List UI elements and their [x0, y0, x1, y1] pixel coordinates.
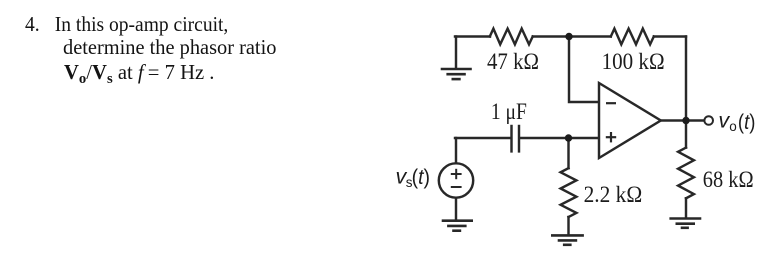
source minus sign — [451, 186, 462, 188]
op-amp plus sign — [606, 132, 616, 142]
wire source top to bottom rail — [455, 138, 457, 163]
ground G4 (under source) — [443, 221, 472, 231]
source Vs circle — [439, 163, 473, 197]
ground G2 (under 68k) — [671, 219, 700, 228]
svg-text:o: o — [729, 119, 737, 134]
wire output node to 68k — [685, 121, 687, 148]
wire top rail left segment — [455, 35, 490, 37]
resistor R1 47 kOhm — [490, 29, 533, 45]
wire source to ground — [455, 198, 457, 220]
svg-text:100 kΩ: 100 kΩ — [602, 49, 665, 74]
source plus sign — [451, 169, 462, 179]
ground G3 (under 2.2k) — [552, 235, 582, 244]
ground G1 (top left) — [442, 69, 471, 79]
wire R2 to right corner — [654, 35, 686, 37]
svg-text:68 kΩ: 68 kΩ — [703, 167, 754, 192]
svg-text:(t): (t) — [412, 165, 430, 189]
op-amp U1 — [599, 83, 661, 158]
label vo(t) — [718, 109, 755, 135]
question text line 1 — [25, 13, 228, 36]
resistor R2 100 kOhm — [611, 29, 654, 45]
resistor R4 68 kOhm — [678, 148, 694, 199]
wire 2.2k to ground — [567, 217, 569, 235]
svg-text:1 μF: 1 μF — [491, 99, 527, 124]
svg-text:2.2 kΩ: 2.2 kΩ — [584, 182, 643, 207]
svg-text:(t): (t) — [738, 110, 756, 134]
wire node C down to 2.2k — [567, 138, 569, 168]
wire capacitor to noninverting input — [520, 137, 599, 139]
node A junction dot — [565, 33, 572, 40]
capacitor C1 1 uF — [512, 126, 520, 151]
node C junction dot — [565, 134, 572, 141]
wire node A to R2 — [569, 35, 611, 37]
wire 68k to ground — [685, 198, 687, 218]
wire bottom rail to capacitor — [455, 137, 510, 139]
wire feedback right vertical — [685, 37, 687, 121]
wire node A down to inverting input — [569, 37, 599, 103]
resistor R3 2.2 kOhm — [561, 168, 577, 217]
question text line 2 — [63, 36, 276, 59]
question text line 3 — [64, 61, 214, 84]
label vs(t) — [396, 164, 431, 190]
wire op-amp output — [662, 119, 705, 121]
output node junction dot — [682, 117, 689, 124]
wire top-left from ground up to top rail — [455, 37, 457, 69]
output terminal open circle — [704, 116, 713, 125]
op-amp minus sign — [606, 102, 616, 104]
svg-text:47 kΩ: 47 kΩ — [487, 49, 539, 74]
wire R1 to node A — [533, 35, 569, 37]
